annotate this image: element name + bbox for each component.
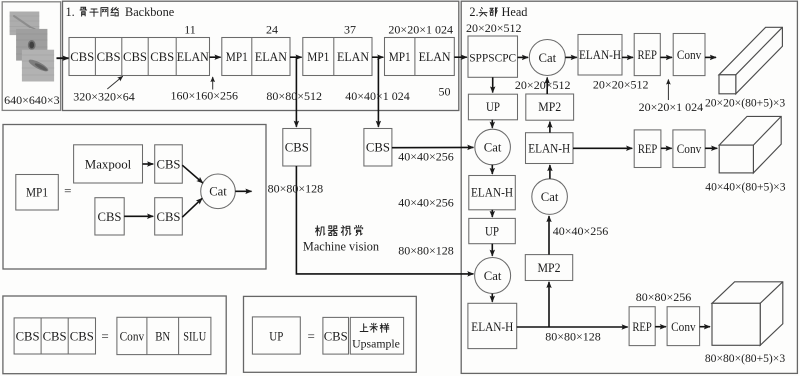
- arrow ELAN-H2 -> UP2: [491, 210, 493, 217]
- svg-text:UP: UP: [269, 329, 283, 343]
- Conv box row3: [667, 307, 700, 346]
- layer index labels above: [184, 23, 453, 99]
- svg-text:Conv: Conv: [677, 48, 702, 62]
- svg-text:80×80×256: 80×80×256: [636, 290, 692, 304]
- caption: [ji qi shi jue] machine vision: [315, 225, 362, 235]
- svg-text:20×20×512: 20×20×512: [515, 78, 571, 92]
- wire SPPSCPC to Cat1: [518, 56, 529, 58]
- dim labels under backbone: [73, 89, 410, 104]
- glyph qi (device): [328, 226, 337, 236]
- svg-text:Backbone: Backbone: [125, 5, 175, 19]
- output cuboid 80x80 (cube): [712, 282, 783, 346]
- svg-text:40×40×256: 40×40×256: [553, 224, 609, 238]
- wire junction up to MP2-2: [548, 282, 550, 327]
- ELAN-H box 3 (bottom): [468, 303, 517, 348]
- arrow Cat4 -> ELAN-H mid (up): [549, 165, 551, 179]
- ELAN-H box mid column: [526, 133, 574, 164]
- wire block2 to block3: [290, 56, 302, 58]
- svg-text:=: =: [101, 328, 108, 343]
- svg-text:CBS: CBS: [324, 329, 348, 343]
- arrow MP2-1 -> Cat1 (up): [546, 78, 548, 95]
- svg-text:20×20×512: 20×20×512: [466, 21, 522, 35]
- backbone block3: MP1 ELAN: [303, 38, 372, 76]
- svg-text:24: 24: [266, 23, 278, 37]
- svg-text:CBS: CBS: [97, 50, 121, 64]
- wire REP3 to Conv3: [655, 326, 666, 328]
- svg-text:80×80×128: 80×80×128: [398, 244, 454, 258]
- glyph gan (dry): [90, 9, 98, 16]
- glyph bu (part): [490, 8, 497, 17]
- wire Cat def output: [235, 190, 251, 192]
- svg-text:Maxpool: Maxpool: [85, 157, 132, 171]
- svg-text:=: =: [64, 183, 71, 198]
- arrow Cat3 -> ELAN-H3: [491, 294, 493, 302]
- svg-text:UP: UP: [486, 100, 500, 114]
- annotation arrow up from 160x160x256: [212, 77, 214, 90]
- output cuboid 20x20 (long thin bar): [719, 27, 782, 94]
- ELAN-H box 2: [469, 176, 516, 210]
- svg-text:MP1: MP1: [26, 186, 48, 200]
- CBS def cells: [14, 318, 95, 354]
- CBS definition box: [3, 296, 226, 374]
- MP2 box 2: [525, 255, 572, 281]
- svg-text:ELAN-H: ELAN-H: [528, 141, 570, 155]
- svg-text:Machine vision: Machine vision: [303, 239, 379, 253]
- wire backbone tap to CBS drop1: [295, 57, 297, 127]
- svg-text:UP: UP: [485, 224, 499, 238]
- wire CBS1 down and right to Cat3: [296, 166, 473, 274]
- svg-text:20×20×(80+5)×3: 20×20×(80+5)×3: [705, 97, 785, 110]
- svg-text:CBS: CBS: [157, 210, 181, 224]
- svg-text:80×80×(80+5)×3: 80×80×(80+5)×3: [705, 352, 785, 365]
- wire Maxpool to CBS upper: [143, 163, 154, 165]
- arrow MP2-2 -> Cat4 (up): [548, 216, 550, 255]
- CBS drop box 1: [283, 129, 311, 167]
- wire CBS lower-right to Cat def: [182, 198, 202, 217]
- svg-text:MP1: MP1: [307, 50, 329, 64]
- glyph gu (bone): [80, 7, 87, 16]
- REP box row1: [634, 34, 660, 76]
- Conv box row2: [673, 130, 705, 168]
- Cat circle (def): [201, 174, 236, 209]
- arrow Cat2 -> ELAN-H2: [491, 165, 493, 174]
- wire Conv1 to output1: [705, 56, 716, 58]
- UP1 box: [468, 94, 517, 120]
- svg-text:CBS: CBS: [366, 141, 390, 155]
- svg-text:40×40×(80+5)×3: 40×40×(80+5)×3: [705, 181, 785, 194]
- svg-text:640×640×3: 640×640×3: [4, 93, 60, 107]
- svg-text:REP: REP: [637, 48, 657, 62]
- svg-text:2.: 2.: [469, 5, 478, 19]
- UP box 2: [469, 218, 516, 243]
- svg-text:ELAN: ELAN: [255, 50, 287, 64]
- arrow input -> backbone: [57, 57, 69, 59]
- Maxpool box: [74, 145, 143, 183]
- svg-text:Conv: Conv: [120, 329, 145, 343]
- backbone block4: MP1 ELAN: [385, 38, 455, 76]
- CBS drop box 2: [364, 129, 392, 167]
- MP2 box 1: [526, 94, 574, 120]
- input image panel: [2, 2, 60, 111]
- wire REP1 to Conv1: [660, 56, 672, 58]
- REP box row2: [634, 130, 661, 168]
- svg-text:MP1: MP1: [389, 50, 411, 64]
- MP1 def: MP1 cell: [16, 175, 59, 211]
- Cat circle 2: [475, 129, 511, 165]
- CBS box (def bottom-left): [95, 198, 124, 235]
- backbone box: [63, 1, 459, 110]
- wire block1 to block2: [210, 56, 221, 58]
- SPPSCPC box: [468, 36, 518, 77]
- wire backbone tap to CBS drop2: [377, 57, 379, 127]
- svg-text:Conv: Conv: [671, 320, 696, 334]
- svg-text:CBS: CBS: [150, 50, 174, 64]
- UP definition box: [244, 296, 417, 372]
- svg-text:40×40×256: 40×40×256: [398, 150, 454, 164]
- svg-text:ELAN-H: ELAN-H: [471, 320, 513, 334]
- wire ELAN-H3 to REP3: [517, 326, 628, 328]
- svg-text:Cat: Cat: [538, 51, 556, 65]
- Cat circle 1: [529, 40, 565, 76]
- svg-text:ELAN-H: ELAN-H: [579, 48, 621, 62]
- wire CBS lower-left to CBS lower-right: [124, 215, 153, 217]
- svg-text:80×80×128: 80×80×128: [545, 330, 601, 344]
- glyph cai (pick): [370, 323, 378, 332]
- glyph shi (look): [341, 226, 351, 236]
- svg-text:320×320×64: 320×320×64: [73, 89, 135, 103]
- svg-text:=: =: [308, 328, 315, 343]
- CBS cell (UP def): [323, 317, 349, 354]
- svg-text:ELAN: ELAN: [177, 50, 209, 64]
- annotation arrow to block1 cell boundary: [107, 76, 122, 89]
- svg-text:Conv: Conv: [677, 142, 702, 156]
- svg-text:REP: REP: [632, 320, 652, 334]
- Conv BN SILU cells: [117, 317, 211, 354]
- Conv box row1: [673, 34, 705, 76]
- svg-text:CBS: CBS: [43, 329, 67, 343]
- arrow UP1 -> Cat2: [491, 120, 493, 128]
- svg-text:160×160×256: 160×160×256: [171, 89, 239, 103]
- svg-text:ELAN: ELAN: [419, 50, 451, 64]
- svg-text:CBS: CBS: [285, 141, 309, 155]
- svg-text:CBS: CBS: [70, 50, 94, 64]
- Upsample cell: [350, 317, 403, 354]
- glyph shang (up): [360, 324, 368, 332]
- svg-text:SPPSCPC: SPPSCPC: [469, 51, 516, 64]
- CBS box (def top): [155, 145, 183, 183]
- svg-text:CBS: CBS: [98, 210, 122, 224]
- svg-text:CBS: CBS: [16, 329, 40, 343]
- svg-text:Upsample: Upsample: [352, 336, 400, 350]
- svg-text:MP2: MP2: [538, 261, 561, 275]
- svg-text:40×40×1 024: 40×40×1 024: [345, 89, 410, 103]
- backbone block1: CBS CBS CBS CBS ELAN: [69, 38, 210, 76]
- svg-text:Cat: Cat: [209, 185, 227, 199]
- svg-text:ELAN-H: ELAN-H: [471, 186, 513, 200]
- svg-text:40×40×256: 40×40×256: [398, 196, 454, 210]
- REP box row3: [629, 307, 655, 346]
- svg-text:CBS: CBS: [157, 157, 181, 171]
- wire Cat1 to ELAN-H1: [565, 56, 577, 58]
- svg-text:Cat: Cat: [541, 190, 559, 204]
- svg-text:ELAN: ELAN: [337, 50, 369, 64]
- CBS box (def bottom-right): [155, 198, 183, 235]
- svg-text:80×80×128: 80×80×128: [268, 182, 324, 196]
- svg-text:Head: Head: [502, 5, 528, 19]
- svg-text:REP: REP: [638, 142, 658, 156]
- glyph yang (sample): [380, 323, 389, 332]
- svg-text:37: 37: [344, 23, 356, 37]
- svg-text:1.: 1.: [66, 5, 75, 19]
- glyph ji (machine): [315, 226, 324, 236]
- Cat circle 3: [475, 258, 511, 294]
- glyph tou (head): [479, 8, 487, 17]
- wire ELAN-H1 to REP1: [622, 56, 633, 58]
- svg-text:MP1: MP1: [226, 50, 248, 64]
- upsample cell: [shang cai yang]: [360, 323, 389, 332]
- ELAN-H box row1: [578, 35, 622, 76]
- glyph wang (net): [101, 8, 108, 17]
- arrow ELAN-H mid -> REP2: [573, 147, 632, 149]
- arrow UP2 -> Cat3: [491, 244, 493, 256]
- svg-text:BN: BN: [155, 329, 170, 343]
- Cat circle 4 (mid column): [532, 179, 568, 215]
- svg-text:50: 50: [439, 85, 451, 99]
- glyph jue (sense): [355, 225, 363, 235]
- svg-text:11: 11: [184, 23, 196, 37]
- wire REP2 to Conv2: [661, 147, 672, 149]
- svg-text:20×20×1 024: 20×20×1 024: [639, 100, 704, 114]
- svg-text:20×20×512: 20×20×512: [593, 78, 649, 92]
- wire Conv2 to output2: [705, 147, 717, 149]
- input wood image 2: [16, 29, 47, 61]
- UP def cell: [252, 317, 300, 354]
- svg-text:80×80×512: 80×80×512: [266, 89, 322, 103]
- wire CBS upper to Cat def: [182, 165, 203, 183]
- wire block3 to block4: [372, 56, 383, 58]
- head box: [461, 1, 797, 373]
- svg-text:Cat: Cat: [484, 269, 502, 283]
- arrow ELAN-H mid -> MP2-1 (up): [549, 122, 551, 133]
- svg-text:20×20×1 024: 20×20×1 024: [388, 23, 453, 37]
- wire block4 to SPPSCPC: [454, 56, 467, 58]
- backbone block2: MP1 ELAN: [222, 38, 290, 76]
- svg-text:CBS: CBS: [123, 50, 147, 64]
- svg-text:Cat: Cat: [484, 140, 502, 154]
- glyph luo (network): [111, 7, 119, 16]
- svg-text:CBS: CBS: [70, 329, 94, 343]
- svg-text:MP2: MP2: [538, 100, 561, 114]
- MP1 definition box: [3, 125, 266, 270]
- input wood image 1: [10, 12, 40, 36]
- wire CBS2 -> Cat2: [392, 146, 474, 148]
- output cuboid 40x40: [719, 116, 781, 173]
- arrow SPPSCPC -> UP1: [492, 77, 494, 92]
- wire Conv3 to output3: [700, 326, 710, 328]
- svg-text:SILU: SILU: [183, 329, 206, 343]
- input wood image 3: [22, 50, 54, 82]
